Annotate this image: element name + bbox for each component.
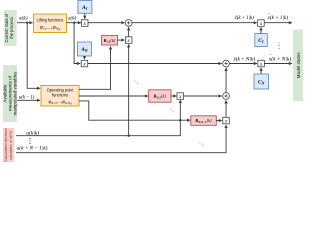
block: C_N (blue) xyxy=(254,74,269,89)
multiplier xb1 xyxy=(82,20,89,27)
wire xb5 up into S3 xyxy=(225,100,227,117)
multiplier xb4 xyxy=(177,93,184,100)
sum S1 xyxy=(125,20,132,27)
sum S2 xyxy=(223,60,230,67)
wire A_N to multiplier xb2 xyxy=(84,56,86,59)
node: Model states (green label right) xyxy=(293,30,303,102)
block: B_{N,2}[k] (red) xyxy=(149,90,171,102)
wire operating point output 1 up into B_{1,2} bottom xyxy=(79,46,111,89)
wire operating point output 3 to B_{N,N-1} xyxy=(79,101,190,122)
svg-text:u(k|k): u(k|k) xyxy=(26,129,39,136)
block: Lifting functions xyxy=(34,14,67,33)
block: B_{N,N-1}[k] (red) xyxy=(191,116,217,126)
svg-text:B1,2[k]: B1,2[k] xyxy=(103,38,116,44)
wire xb1 to sum S1 xyxy=(88,22,125,24)
wire C_1 up into xb6 xyxy=(260,27,262,33)
label vertical dots between u labels xyxy=(29,138,30,144)
svg-text:BN,2[k]: BN,2[k] xyxy=(153,94,167,100)
vertical ellipsis right side between output rows xyxy=(278,42,279,49)
block: B_{1,2}[k] (red) xyxy=(102,36,118,46)
node: Available measurements of manipulated variables (green label) xyxy=(2,65,17,122)
svg-text:u(k + N − 1|k): u(k + N − 1|k) xyxy=(17,145,48,152)
block: A_1 (blue) xyxy=(78,1,92,14)
diagonal ellipsis between rows (3) xyxy=(199,142,204,146)
svg-text:x(k): x(k) xyxy=(18,15,28,22)
wire S1 to multiplier xb6 (long) with label zhat(k+1|k) xyxy=(132,22,257,24)
multiplier xb3 xyxy=(125,37,131,44)
block: C_1 (blue) xyxy=(255,34,267,47)
wire bus u(k|k): junction to xb3 column, corner up to xb4 xyxy=(16,100,180,137)
wire xb2 to sum S2 (long row 2) xyxy=(88,63,222,65)
wire xb7 to Model states with label xhat(k+N|k) xyxy=(264,63,292,65)
diagonal ellipsis between rows (1) xyxy=(134,80,139,85)
svg-text:ẑ(k + 1|k): ẑ(k + 1|k) xyxy=(234,14,254,21)
svg-text:BN,N−1[k]: BN,N−1[k] xyxy=(194,118,212,124)
wire operating point output 2 to B_{N,2} xyxy=(79,95,148,97)
wire C_N up into xb7 xyxy=(260,68,262,74)
svg-text:φ1,...,φNφ: φ1,...,φNφ xyxy=(40,26,61,31)
wire S2 to multiplier xb7 with label zhat(k+N|k) xyxy=(229,63,257,65)
multiplier xb5 xyxy=(223,117,230,124)
svg-text:Lifting functions: Lifting functions xyxy=(37,17,64,22)
svg-text:Model states: Model states xyxy=(296,52,301,79)
wire B_{N,N-1} to multiplier xb5 xyxy=(216,120,222,122)
wire u(k-1) into operating point box xyxy=(17,99,40,101)
sum S3 xyxy=(223,93,230,100)
wire x(k) into lifting box with branch down to operating point box xyxy=(17,22,40,89)
svg-text:functions: functions xyxy=(52,92,68,97)
wire B_{1,2} to multiplier xb3 xyxy=(118,39,125,41)
block: A_N (blue) xyxy=(78,42,92,56)
wire z(k) to first multiplier with branch down to second multiplier xyxy=(67,22,82,64)
svg-text:ẑ(k + N|k): ẑ(k + N|k) xyxy=(233,55,256,62)
multiplier xb2 xyxy=(81,60,88,67)
wire A_1 to multiplier xb1 xyxy=(84,13,86,19)
svg-text:variables of MPC: variables of MPC xyxy=(8,130,13,160)
wire xb4 to sum S3 xyxy=(184,95,222,97)
wire xb3 up into S1 xyxy=(128,27,130,37)
wire B_{N,2} to multiplier xb4 xyxy=(171,95,177,97)
wire S3 up into S2 xyxy=(225,68,227,93)
svg-text:manipulated variables: manipulated variables xyxy=(12,71,17,116)
multiplier xb7 xyxy=(258,60,265,67)
svg-text:the process: the process xyxy=(9,17,14,39)
block: Operating point functions xyxy=(41,86,79,107)
svg-text:z(k): z(k) xyxy=(67,15,76,22)
svg-text:u(k − 1): u(k − 1) xyxy=(19,94,35,101)
node: Calculated decision variables of MPC (pink label) xyxy=(3,128,14,162)
svg-text:x(k + N|k): x(k + N|k) xyxy=(268,55,292,62)
wire bus u(k+N-1|k): corner up to xb5 xyxy=(16,125,226,153)
node: Current state of the process (green label) xyxy=(4,10,17,46)
wire u(k|k) bus up into xb3 (from bus1 junction) xyxy=(128,44,130,136)
diagonal ellipsis between rows (2) xyxy=(169,108,174,112)
multiplier xb6 xyxy=(258,20,265,27)
wire xb6 to Model states with label xhat(k+1|k) xyxy=(264,22,292,24)
